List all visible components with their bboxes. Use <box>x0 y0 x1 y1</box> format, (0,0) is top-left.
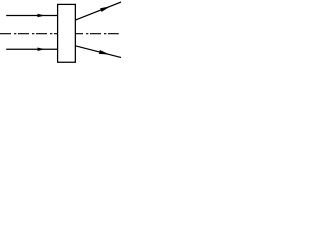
output ray 1 wire (upper diverging beam) <box>75 2 121 20</box>
output ray 2 arrowhead <box>99 50 110 55</box>
input ray 1 wire (top-left horizontal beam) <box>6 15 57 17</box>
input ray 2 wire (bottom-left horizontal beam) <box>6 48 57 50</box>
output ray 2 wire (lower diverging beam) <box>75 46 121 58</box>
optical axis (dash-dot center line) <box>0 33 119 35</box>
output ray 1 arrowhead <box>100 6 110 12</box>
input ray 1 arrowhead <box>38 14 45 18</box>
input ray 2 arrowhead <box>38 48 45 52</box>
optical element U1 (rectangular block, white fill) <box>58 4 76 62</box>
